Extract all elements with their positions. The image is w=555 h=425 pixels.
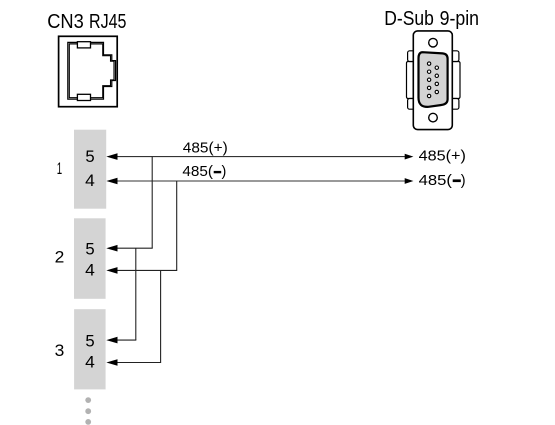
connector P1 D-Sub pins column right (4 pins) bbox=[435, 66, 438, 94]
port block 3 bbox=[74, 309, 106, 389]
svg-text:485(: 485( bbox=[419, 173, 452, 189]
svg-text:9-pin: 9-pin bbox=[440, 8, 479, 30]
svg-text:4: 4 bbox=[85, 172, 95, 190]
connector P1 D-Sub pins column left (5 pins) bbox=[427, 62, 430, 98]
arrowhead into port2 pin4 bbox=[106, 267, 117, 274]
svg-text:): ) bbox=[222, 164, 227, 180]
svg-text:5: 5 bbox=[85, 241, 94, 259]
svg-text:485(: 485( bbox=[182, 164, 213, 180]
arrowhead into port1 pin4 bbox=[106, 178, 117, 185]
connector P1 D-Sub left bracket bottom tab bbox=[408, 99, 417, 110]
svg-text:5: 5 bbox=[85, 148, 94, 166]
port block 2 bbox=[74, 218, 106, 298]
svg-text:1: 1 bbox=[57, 160, 62, 178]
svg-text:RJ45: RJ45 bbox=[89, 11, 127, 33]
svg-text:2: 2 bbox=[55, 249, 65, 267]
arrowhead into port3 pin4 bbox=[106, 359, 117, 366]
net label 485(-) left bbox=[182, 164, 226, 180]
arrowhead into port3 pin5 bbox=[106, 337, 117, 344]
connector P1 D-Sub left bracket middle bbox=[407, 62, 417, 99]
arrowhead into port1 pin5 bbox=[106, 153, 117, 160]
wire port2 pin5 horizontal bbox=[112, 247, 153, 249]
arrowhead into port2 pin5 bbox=[106, 245, 117, 252]
arrowhead toward D-Sub 485(+) bbox=[405, 154, 414, 160]
connector P1 D-Sub right bracket middle bbox=[450, 62, 460, 99]
wire branch A vertical from 485(+) to port2 pin5 bbox=[151, 157, 153, 249]
svg-text:): ) bbox=[461, 173, 466, 189]
wire port2 pin4 horizontal bbox=[112, 269, 177, 271]
ellipsis continuation dots bbox=[85, 397, 91, 425]
wire 485(-) main horizontal bbox=[112, 180, 406, 182]
arrowhead toward D-Sub 485(-) bbox=[405, 178, 414, 184]
svg-text:D-Sub: D-Sub bbox=[384, 8, 434, 30]
svg-text:485(+): 485(+) bbox=[419, 148, 466, 164]
connector J1 RJ45 socket outline outer bbox=[68, 42, 116, 99]
wire branch C vertical from port2 pin5 line to port3 pin5 bbox=[135, 248, 137, 340]
connector P1 D-Sub right bracket bottom tab bbox=[450, 99, 459, 110]
connector J1 RJ45 bottom tab bbox=[77, 94, 90, 100]
connector P1 D-Sub top screw hole bbox=[429, 38, 438, 47]
svg-text:3: 3 bbox=[55, 342, 65, 360]
wire port3 pin4 horizontal bbox=[112, 362, 161, 364]
label CN3 RJ45 bbox=[47, 11, 126, 33]
wire branch B vertical from 485(-) to port2 pin4 bbox=[176, 181, 178, 270]
wire port3 pin5 horizontal bbox=[112, 339, 136, 341]
connector P1 D-Sub body bbox=[413, 31, 452, 130]
svg-text:4: 4 bbox=[85, 354, 95, 372]
connector P1 D-Sub bottom screw hole bbox=[429, 113, 438, 122]
connector J1 RJ45 top tab bbox=[77, 42, 90, 48]
connector J1 RJ45 jack outer box bbox=[59, 36, 118, 106]
connector P1 D-Sub right bracket top tab bbox=[450, 51, 459, 62]
svg-text:5: 5 bbox=[85, 332, 94, 350]
connector J1 RJ45 socket outline inner bbox=[69, 44, 114, 98]
svg-text:4: 4 bbox=[85, 262, 95, 280]
port block 1 bbox=[74, 130, 106, 209]
net label 485(-) right bbox=[419, 173, 466, 189]
label D-Sub 9-pin bbox=[384, 8, 479, 30]
connector P1 D-Sub D-shell bbox=[419, 52, 448, 107]
wire 485(+) main horizontal bbox=[112, 156, 406, 158]
wire branch D vertical from port2 pin4 line to port3 pin4 bbox=[160, 270, 162, 362]
svg-text:CN3: CN3 bbox=[47, 11, 84, 33]
connector P1 D-Sub left bracket top tab bbox=[408, 51, 417, 62]
svg-text:485(+): 485(+) bbox=[183, 141, 228, 157]
